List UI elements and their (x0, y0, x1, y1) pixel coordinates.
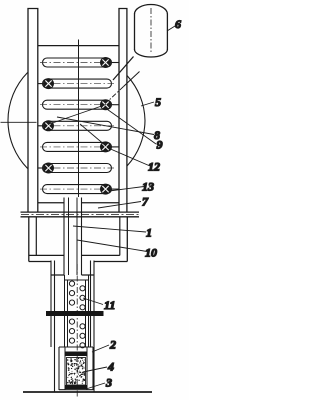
flow diagonal to row5 (80, 124, 106, 146)
svg-text:2: 2 (109, 338, 116, 352)
tube row 7 (40, 185, 119, 194)
leader 4 (83, 367, 107, 372)
rotor symbol row 6 left (44, 163, 54, 173)
inner drop tube 2 (65, 275, 89, 347)
svg-text:5: 5 (155, 95, 161, 109)
svg-text:4: 4 (107, 360, 114, 374)
leader 5 (141, 102, 154, 106)
flow diagonal row3 to row4 (48, 105, 106, 125)
rotor symbol row 1 right (101, 58, 111, 68)
chain dots 11 (left column) (69, 281, 74, 343)
rotor symbol row 4 left (44, 121, 54, 131)
chamber interior bottom (38, 202, 119, 204)
svg-text:13: 13 (142, 180, 154, 194)
leader 8 (57, 117, 154, 135)
leader 13 (109, 187, 144, 192)
svg-text:6: 6 (175, 17, 181, 31)
catalyst stipple 4 (67, 357, 85, 384)
leader 1 (73, 226, 146, 232)
centerline lower (76, 264, 78, 398)
central pipe 10 (64, 198, 82, 276)
leader 11 (83, 298, 103, 305)
lower vessel walls (29, 217, 128, 262)
leader 9 (104, 107, 156, 144)
leader 7 (98, 202, 141, 209)
tube row 2 (38, 79, 114, 88)
cylinder 6 (feed hopper) (135, 5, 168, 57)
circle 5 center tick (1, 121, 37, 123)
rotor symbol row 7 right (101, 184, 111, 194)
chamber right wall (119, 9, 127, 213)
circle 5 (large circle behind chamber, arcs visible outside walls) (8, 73, 145, 169)
top plate 2 (65, 352, 87, 357)
vessel bottom plate (29, 255, 128, 261)
svg-text:10: 10 (145, 246, 157, 260)
floor line (23, 391, 152, 393)
tube row 6 (38, 164, 114, 173)
flange (21, 212, 140, 217)
svg-text:1: 1 (146, 226, 152, 240)
outer drop tube (51, 261, 94, 393)
rotor symbol row 2 left (44, 79, 54, 89)
svg-text:11: 11 (104, 298, 115, 312)
spout wall from cylinder (113, 57, 134, 81)
svg-text:7: 7 (142, 195, 149, 209)
leader 12 (107, 148, 150, 167)
leader 10 (77, 240, 147, 252)
rotor symbol row 5 right (101, 142, 111, 152)
svg-text:3: 3 (105, 376, 112, 390)
rotor symbol row 3 right (101, 100, 111, 110)
chain dots 11 (right column) (80, 286, 85, 348)
shoulder at pipe end (51, 275, 94, 280)
leader 2 (92, 345, 109, 352)
tube row 5 (40, 142, 119, 151)
chamber left wall (28, 9, 38, 213)
spout axis (solid then dash-dot) (106, 72, 140, 104)
collar flange (46, 311, 104, 316)
bottom box walls (59, 347, 93, 390)
leader 6 (167, 26, 175, 31)
svg-text:12: 12 (148, 160, 160, 174)
tube row 4 (38, 121, 114, 130)
tube row 1 (40, 58, 119, 67)
tube row 3 (40, 100, 119, 109)
central shaft line (78, 40, 80, 198)
chamber top interior line (38, 45, 119, 47)
shelf tubes (7 rows) (38, 58, 119, 195)
bottom plug 3 (65, 385, 87, 389)
svg-text:9: 9 (157, 138, 163, 152)
leader 3 (86, 383, 105, 389)
